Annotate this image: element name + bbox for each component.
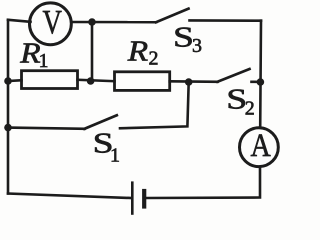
svg-text:3: 3	[192, 35, 202, 57]
junction	[87, 77, 95, 85]
resistor R1	[22, 71, 78, 89]
resistor R2	[115, 72, 170, 91]
svg-text:2: 2	[149, 48, 159, 70]
svg-text:V: V	[43, 3, 62, 41]
wire	[147, 168, 261, 198]
svg-text:2: 2	[245, 98, 255, 120]
switch S3	[156, 9, 189, 23]
wire	[7, 20, 10, 194]
switch S2	[218, 69, 250, 82]
junction	[88, 18, 96, 26]
svg-text:R: R	[19, 36, 40, 68]
wire	[190, 19, 262, 22]
wire	[259, 21, 262, 127]
wire	[8, 20, 31, 22]
junction	[4, 77, 12, 85]
junction	[257, 78, 265, 86]
svg-text:A: A	[250, 127, 270, 164]
switch S1	[85, 115, 117, 129]
svg-text:R: R	[127, 34, 148, 66]
wire	[170, 80, 218, 83]
voltmeter V	[30, 3, 72, 45]
svg-text:1: 1	[39, 50, 49, 72]
wire	[8, 79, 22, 82]
wire	[91, 22, 94, 81]
ammeter A	[240, 127, 279, 167]
wire	[8, 194, 131, 199]
wire	[72, 21, 157, 24]
wire	[252, 81, 262, 84]
svg-text:1: 1	[110, 145, 120, 167]
wire	[8, 128, 85, 129]
wire	[78, 80, 115, 81]
junction	[185, 78, 193, 86]
wire	[120, 82, 189, 128]
battery	[132, 183, 144, 214]
junction	[4, 124, 12, 132]
svg-text:S: S	[173, 21, 194, 53]
